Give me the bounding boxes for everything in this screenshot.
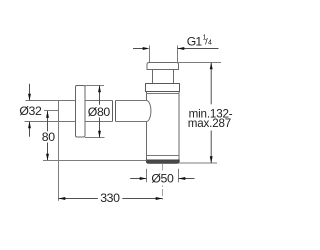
outlet pipe top line with Ø32 extension xyxy=(26,100,76,102)
wall rosette xyxy=(76,86,86,138)
outlet pipe top line right of rosette xyxy=(85,100,147,102)
trap body bottom rim xyxy=(146,160,179,163)
svg-text:max.287: max.287 xyxy=(188,117,231,130)
svg-text:Ø32: Ø32 xyxy=(19,104,42,118)
G1 1/4 leader line under label xyxy=(178,48,219,50)
body centreline below trap xyxy=(162,164,164,201)
Ø50 dimension tail left with arrow xyxy=(130,178,146,180)
trap body right edge xyxy=(178,92,180,162)
outlet pipe bottom line right of rosette xyxy=(85,121,147,123)
80 dimension line upper with arrow xyxy=(47,111,49,131)
outlet pipe bottom line with Ø32 extension xyxy=(25,121,76,123)
330 dimension line right segment with arrow xyxy=(122,198,162,200)
Ø80 dimension line upper xyxy=(99,86,101,105)
trap body shoulder line xyxy=(147,93,180,95)
pipe joint line 2 xyxy=(115,101,117,122)
min/max bottom extension line xyxy=(179,162,217,164)
Ø50 extension line right xyxy=(178,169,180,183)
330 left extension line from wall end xyxy=(58,122,60,201)
Ø80 extension line top xyxy=(85,85,104,87)
label Ø50 background xyxy=(150,171,174,185)
G1 1/4 dimension arrow left xyxy=(143,47,150,50)
Ø32 dimension arrow bottom xyxy=(29,122,31,137)
Ø50 dimension tail right with arrow xyxy=(179,178,195,180)
svg-text:80: 80 xyxy=(42,130,55,144)
min/max dimension line lower with arrow xyxy=(210,131,212,164)
min/max top extension line xyxy=(177,62,221,64)
trap body left edge lower xyxy=(146,122,148,162)
inlet flange (top disc) xyxy=(147,63,179,70)
label G1 1/4 xyxy=(187,34,212,48)
G1 1/4 thread extension line left xyxy=(149,46,151,63)
inlet pipe bulge arc into body xyxy=(147,101,151,122)
Ø50 extension line left xyxy=(146,169,148,183)
min/max dimension line upper with arrow xyxy=(210,63,212,105)
Ø32 dimension arrow top xyxy=(29,84,31,101)
80 bottom extension line xyxy=(43,160,146,162)
svg-text:330: 330 xyxy=(100,191,120,205)
Ø80 extension line bottom xyxy=(85,137,105,139)
G1 1/4 dimension arrow right xyxy=(178,47,185,50)
svg-text:G1: G1 xyxy=(187,34,203,48)
union nut xyxy=(146,84,180,92)
svg-text:Ø80: Ø80 xyxy=(88,105,111,119)
pipe joint line 1 xyxy=(112,101,114,122)
outlet pipe wall end xyxy=(58,101,60,122)
pipe centreline tick xyxy=(44,110,59,112)
80 dimension line lower with arrow xyxy=(47,143,49,161)
Ø80 arrow bottom xyxy=(98,131,101,138)
330 dimension line left segment with arrow xyxy=(59,198,98,200)
G1 1/4 thread extension line right xyxy=(177,46,179,63)
G1 1/4 dimension tail left xyxy=(133,48,144,50)
Ø80 arrow top xyxy=(98,86,101,93)
inlet neck left edge xyxy=(152,70,154,84)
svg-text:4: 4 xyxy=(208,40,212,47)
svg-text:Ø50: Ø50 xyxy=(151,172,174,186)
trap body cap line xyxy=(147,155,180,157)
inlet neck right edge xyxy=(173,70,175,84)
trap body left edge upper xyxy=(146,92,148,101)
Ø80 dimension line lower xyxy=(99,118,101,138)
